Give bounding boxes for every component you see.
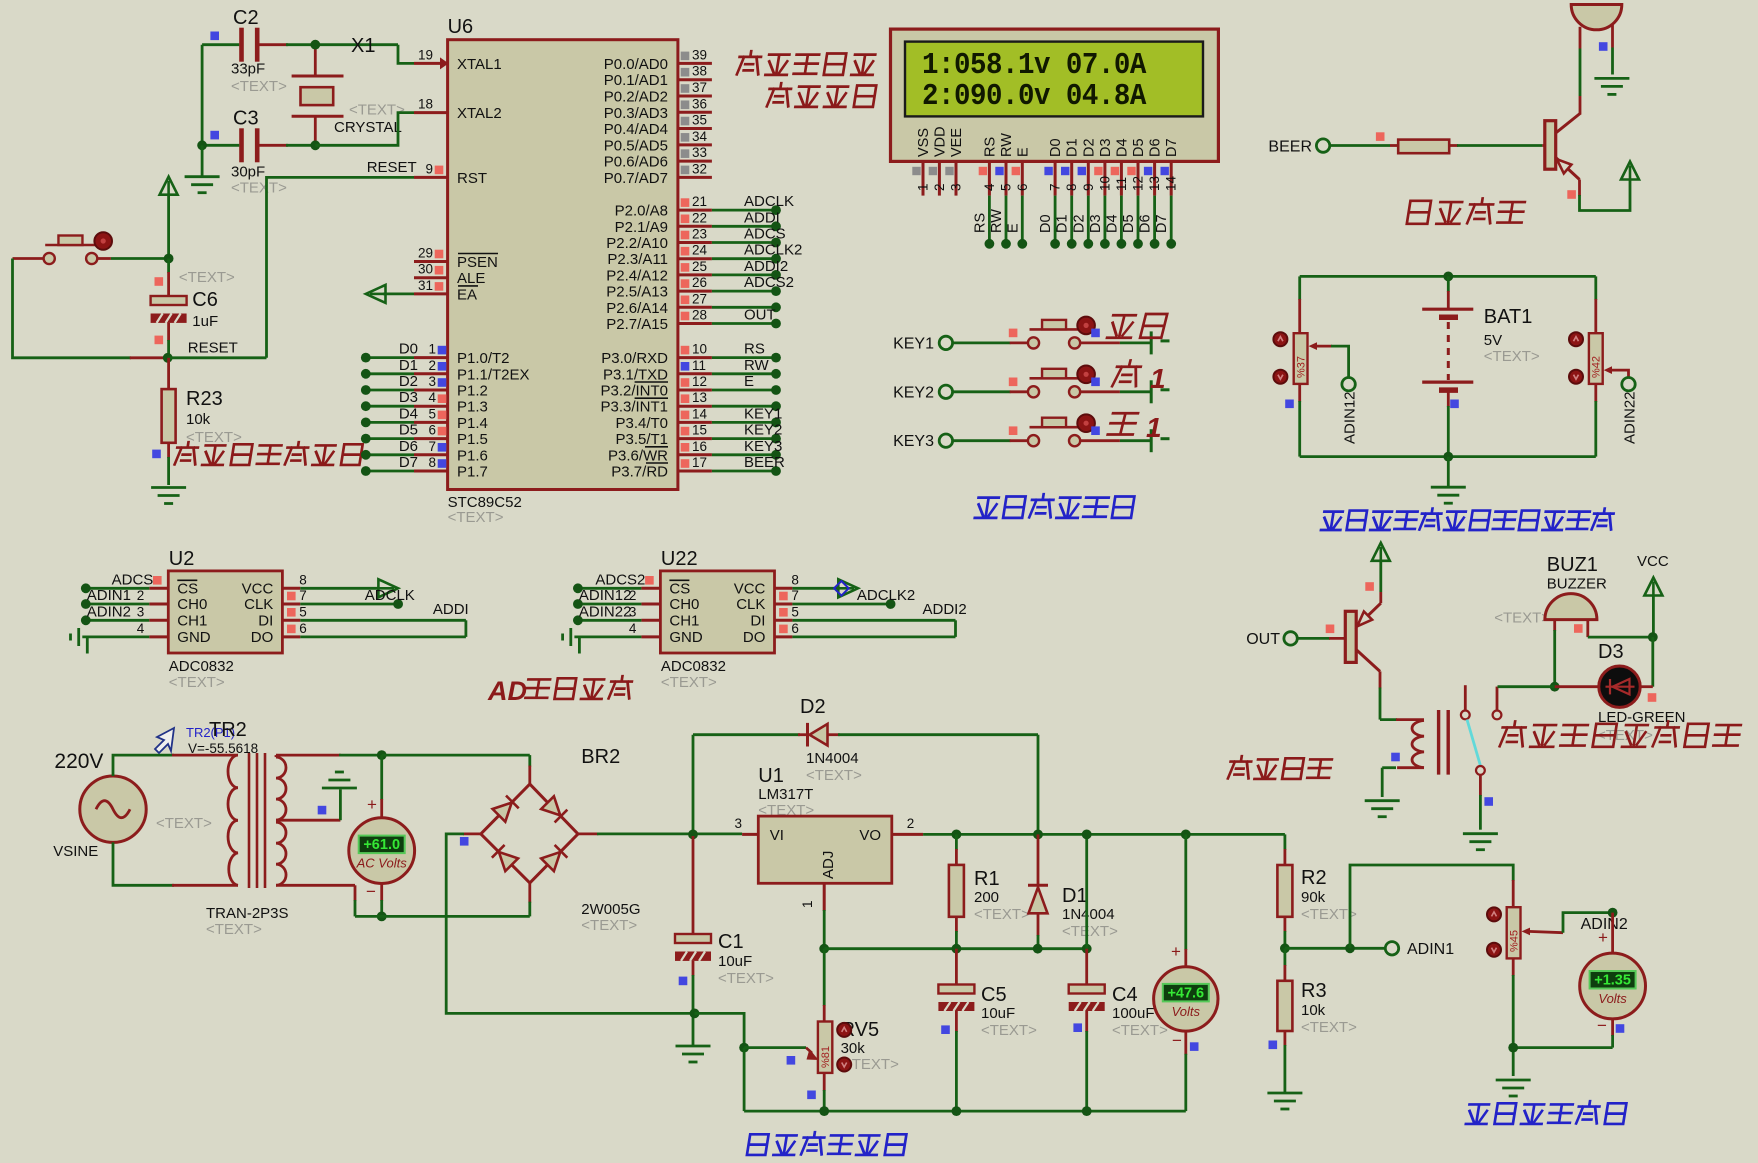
U22 pin6 DO loop: [775, 635, 793, 638]
svg-text:E: E: [744, 373, 754, 390]
svg-text:D1: D1: [1055, 214, 1071, 233]
button KEY3: [1028, 414, 1095, 446]
svg-text:28: 28: [692, 308, 707, 323]
label analog current output: [1466, 1101, 1627, 1124]
wire button right: [97, 257, 111, 260]
svg-text:14: 14: [1164, 175, 1179, 191]
capacitor C5: [955, 949, 958, 985]
pin 32 P0.7/AD7: [678, 176, 712, 179]
svg-text:1N4004: 1N4004: [1062, 906, 1115, 923]
svg-text:P3.1/TXD: P3.1/TXD: [603, 366, 668, 383]
pin 13 P3.3/INT1 net nc: [678, 405, 712, 408]
wire secondary top lead: [275, 755, 278, 757]
wire ADIN1: [1285, 947, 1385, 950]
svg-text:C5: C5: [981, 984, 1007, 1006]
svg-text:D6: D6: [1148, 138, 1164, 157]
svg-text:−: −: [1172, 1031, 1182, 1050]
wire bridge plus out: [578, 833, 598, 836]
svg-text:5: 5: [791, 604, 799, 619]
svg-text:ADDI: ADDI: [744, 209, 780, 226]
ground below R23: [151, 488, 186, 504]
svg-text:6: 6: [299, 621, 307, 636]
wire ADJ rail: [824, 947, 1086, 950]
svg-text:D6: D6: [399, 438, 418, 455]
vcc arrow beer emitter: [1621, 162, 1639, 180]
svg-text:BEER: BEER: [1268, 139, 1312, 156]
svg-text:D5: D5: [399, 422, 418, 439]
resistor R1: [952, 830, 962, 840]
node ADIN2: [1608, 908, 1618, 918]
diode D2: [693, 733, 800, 736]
pin 30 ALE: [414, 276, 448, 279]
svg-text:U2: U2: [169, 548, 195, 570]
wiper RV-54: [1522, 928, 1531, 936]
svg-text:ADIN12: ADIN12: [579, 587, 632, 604]
wire RV5 bottom: [823, 1073, 826, 1091]
svg-text:<TEXT>: <TEXT>: [581, 917, 637, 934]
svg-text:D7: D7: [1154, 214, 1170, 233]
svg-text:CS: CS: [177, 580, 198, 597]
svg-text:<TEXT>: <TEXT>: [179, 269, 235, 286]
svg-text:C1: C1: [718, 931, 744, 953]
svg-text:X1: X1: [351, 35, 375, 57]
wire meter minus to pot bottom: [1513, 1046, 1612, 1049]
svg-text:1: 1: [800, 900, 815, 908]
label full charge alarm: [1500, 721, 1741, 746]
svg-text:P1.6: P1.6: [457, 447, 488, 464]
svg-text:V=-55.5618: V=-55.5618: [188, 741, 258, 756]
transformer TR2 core: [248, 753, 251, 888]
label set charging params: [975, 494, 1135, 518]
svg-text:21: 21: [692, 194, 707, 209]
svg-text:D0: D0: [399, 341, 418, 358]
svg-text:P2.5/A13: P2.5/A13: [606, 284, 668, 301]
svg-text:8: 8: [791, 572, 799, 587]
svg-text:13: 13: [692, 390, 707, 405]
svg-text:RESET: RESET: [367, 159, 417, 176]
svg-text:P0.5/AD5: P0.5/AD5: [604, 137, 668, 154]
pin 7 P1.6 net D6: [414, 453, 448, 456]
wire bridge minus loop: [463, 833, 481, 836]
wire left rail C2-C3: [201, 45, 204, 146]
svg-text:CH0: CH0: [669, 596, 699, 613]
svg-text:P1.2: P1.2: [457, 383, 488, 400]
wire lcd D1: [1070, 196, 1073, 244]
svg-text:+: +: [1171, 942, 1181, 961]
label charger params: [737, 51, 876, 75]
node crystal bottom: [310, 140, 320, 150]
svg-text:38: 38: [692, 64, 707, 79]
svg-text:BUZZER: BUZZER: [1547, 576, 1607, 593]
svg-text:3: 3: [428, 374, 436, 389]
svg-text:CH1: CH1: [669, 612, 699, 629]
resistor R2: [1277, 865, 1292, 917]
node C3-ground: [197, 140, 207, 150]
button KEY1: [1028, 317, 1095, 349]
svg-text:25: 25: [692, 259, 707, 274]
label minimal system: [175, 442, 363, 465]
svg-text:9: 9: [1081, 183, 1096, 191]
wire bat left upper: [1298, 276, 1301, 300]
svg-text:100uF: 100uF: [1112, 1005, 1155, 1022]
pin 24 P2.3 net ADCLK2: [678, 257, 712, 260]
U22 pin1 CS net ADCS2: [641, 587, 660, 590]
cell ground key1: [1150, 331, 1153, 354]
relay switch: [1461, 711, 1470, 720]
wire button1 to cell: [1080, 341, 1120, 344]
svg-text:CLK: CLK: [736, 596, 765, 613]
wire XTAL2: [315, 113, 414, 146]
svg-text:E: E: [1005, 223, 1021, 233]
pin 3 P1.2 net D2: [414, 389, 448, 392]
terminal OUT: [1284, 632, 1297, 645]
ground relay coil: [1365, 801, 1400, 817]
U2 pin7 CLK net ADCLK: [282, 603, 300, 606]
pin 29 PSEN: [414, 260, 448, 263]
cursor arrow: [155, 728, 174, 753]
pin VO: [892, 833, 923, 836]
wire lcd E: [1021, 196, 1024, 244]
svg-text:DO: DO: [743, 629, 766, 646]
wire vsine bottom: [113, 842, 174, 885]
resistor base beer: [1390, 144, 1398, 147]
svg-text:VDD: VDD: [932, 126, 948, 157]
svg-text:VSS: VSS: [916, 128, 932, 157]
svg-text:36: 36: [692, 96, 707, 111]
svg-text:8: 8: [428, 455, 436, 470]
svg-text:D0: D0: [1048, 138, 1064, 157]
button KEY2: [1028, 366, 1095, 398]
svg-text:7: 7: [791, 588, 799, 603]
svg-text:AD: AD: [487, 676, 527, 706]
svg-text:P1.4: P1.4: [457, 415, 488, 432]
svg-text:VCC: VCC: [1637, 553, 1669, 570]
svg-text:5: 5: [999, 183, 1014, 191]
wire lcd D4: [1120, 196, 1123, 244]
pin 36 P0.3/AD3: [678, 111, 712, 114]
capacitor C6: [167, 259, 170, 274]
terminal ADIN1: [1385, 942, 1398, 955]
node ADIN1 tee: [1345, 943, 1355, 953]
svg-text:ALE: ALE: [457, 270, 485, 287]
svg-text:KEY2: KEY2: [893, 384, 934, 401]
pot RV-54: [1507, 907, 1521, 958]
bridge diode BL: [492, 845, 518, 871]
svg-text:2: 2: [629, 588, 637, 603]
node button-C6: [164, 254, 174, 264]
node C1 gnd junction: [690, 1009, 700, 1019]
wire bat left lower: [1298, 384, 1301, 402]
pin 18 XTAL2: [414, 111, 448, 114]
node pot bottom: [1508, 1043, 1518, 1053]
svg-text:BAT1: BAT1: [1484, 306, 1533, 328]
svg-text:R1: R1: [974, 868, 1000, 890]
svg-text:RS: RS: [972, 213, 988, 233]
bridge diode TL: [493, 796, 519, 822]
diode D1: [1033, 830, 1043, 840]
svg-text:BEER: BEER: [744, 454, 785, 471]
svg-text:Volts: Volts: [1172, 1004, 1201, 1019]
wire reset to RST pin: [168, 356, 267, 359]
svg-text:4: 4: [137, 621, 145, 636]
svg-text:7: 7: [299, 588, 307, 603]
pin 33 P0.6/AD6: [678, 160, 712, 163]
transformer TR2 secondary bottom: [276, 822, 286, 885]
node bat top: [1443, 272, 1453, 282]
svg-text:9: 9: [425, 161, 433, 176]
wire secondary bottom lead: [276, 884, 355, 887]
wire KEY1 to button: [953, 341, 1011, 344]
svg-text:P2.0/A8: P2.0/A8: [615, 203, 668, 220]
terminal KEY2: [939, 385, 952, 398]
wire KEY2 to button: [953, 390, 1011, 393]
battery BAT1: [1447, 276, 1450, 292]
svg-text:P2.3/A11: P2.3/A11: [607, 251, 668, 268]
wire KEY3 to button: [953, 439, 1011, 442]
capacitor C2: [239, 28, 244, 62]
label plus1: [1112, 361, 1142, 387]
wire D2 right vertical: [1037, 735, 1040, 835]
ground U2: [86, 637, 89, 654]
svg-text:RS: RS: [744, 341, 765, 358]
wiper RV-right: [1604, 366, 1612, 374]
wire bat right lower: [1594, 384, 1597, 402]
svg-text:DI: DI: [258, 612, 273, 629]
svg-text:30k: 30k: [841, 1040, 866, 1057]
meter +47.6 Volts: [1181, 830, 1191, 840]
svg-text:D3: D3: [399, 389, 418, 406]
svg-text:10uF: 10uF: [718, 953, 752, 970]
U2 pin4 GND: [149, 635, 168, 638]
svg-text:37: 37: [692, 80, 707, 95]
svg-text:Volts: Volts: [1598, 991, 1627, 1006]
svg-text:10uF: 10uF: [981, 1005, 1015, 1022]
label set: [1107, 314, 1167, 338]
lcd screen: [905, 42, 1203, 117]
svg-text:<TEXT>: <TEXT>: [231, 78, 287, 95]
pin 14 P3.4/T0 net KEY1: [678, 421, 712, 424]
svg-text:16: 16: [692, 439, 707, 454]
svg-text:C3: C3: [233, 108, 259, 130]
svg-text:CRYSTAL: CRYSTAL: [334, 119, 402, 136]
svg-text:10k: 10k: [186, 411, 211, 428]
svg-text:ADCLK: ADCLK: [365, 587, 415, 604]
svg-text:DO: DO: [251, 629, 274, 646]
wire C3 row: [202, 144, 239, 147]
ground R3: [1267, 1093, 1302, 1109]
svg-text:BR2: BR2: [581, 746, 620, 768]
svg-text:<TEXT>: <TEXT>: [1062, 923, 1118, 940]
pin 22 P2.1 net ADDI: [678, 225, 712, 228]
svg-text:VSINE: VSINE: [53, 843, 98, 860]
pin ADJ: [823, 883, 826, 911]
svg-text:P0.0/AD0: P0.0/AD0: [604, 56, 668, 73]
vcc arrow out emitter: [1372, 543, 1390, 561]
svg-text:CLK: CLK: [244, 596, 273, 613]
svg-text:GND: GND: [177, 629, 211, 646]
svg-text:6: 6: [428, 423, 436, 438]
svg-text:P3.2/INT0: P3.2/INT0: [600, 383, 668, 400]
svg-text:15: 15: [692, 423, 707, 438]
wire ac top to bridge: [382, 754, 530, 757]
wire RV-54 bottom: [1512, 958, 1515, 976]
wire lcd D2: [1087, 196, 1090, 244]
terminal BEER: [1316, 139, 1329, 152]
crystal X1: [314, 45, 317, 76]
svg-text:P1.1/T2EX: P1.1/T2EX: [457, 366, 530, 383]
svg-text:RW: RW: [999, 133, 1015, 157]
svg-text:CH0: CH0: [177, 596, 207, 613]
vcc arrow reset: [160, 177, 178, 195]
svg-text:D1: D1: [399, 357, 418, 374]
transistor Q-out body: [1345, 611, 1356, 662]
cell ground key2: [1150, 380, 1153, 403]
svg-text:P0.7/AD7: P0.7/AD7: [604, 170, 668, 187]
pin 5 P1.4 net D4: [414, 421, 448, 424]
svg-text:P3.3/INT1: P3.3/INT1: [600, 399, 668, 416]
svg-text:8: 8: [1064, 183, 1079, 191]
svg-text:22: 22: [692, 210, 707, 225]
svg-text:ADDI2: ADDI2: [744, 258, 788, 275]
svg-text:10: 10: [1097, 176, 1112, 191]
svg-text:KEY1: KEY1: [893, 335, 934, 352]
svg-text:5: 5: [299, 604, 307, 619]
svg-text:D5: D5: [1121, 214, 1137, 233]
svg-text:XTAL2: XTAL2: [457, 105, 502, 122]
svg-text:R3: R3: [1301, 980, 1327, 1002]
wire sounder right to ground: [1611, 25, 1614, 48]
svg-text:1: 1: [916, 183, 931, 191]
svg-text:26: 26: [692, 275, 707, 290]
svg-text:AC Volts: AC Volts: [356, 856, 408, 871]
switch blade: [1467, 720, 1480, 766]
svg-text:D5: D5: [1131, 138, 1147, 157]
svg-text:2: 2: [907, 816, 915, 831]
wire vsine top: [113, 755, 174, 776]
U22 pin4 GND: [641, 635, 660, 638]
svg-text:U1: U1: [758, 765, 784, 787]
svg-text:P0.1/AD1: P0.1/AD1: [604, 72, 668, 89]
svg-text:11: 11: [1114, 177, 1129, 191]
svg-text:P1.0/T2: P1.0/T2: [457, 350, 510, 367]
wire button left loop: [13, 257, 44, 260]
svg-text:D2: D2: [800, 696, 826, 718]
ground C1: [676, 1046, 711, 1062]
U2 pin8 VCC power arrow: [282, 587, 300, 590]
wire wiper line: [744, 1046, 806, 1049]
svg-text:<TEXT>: <TEXT>: [806, 767, 862, 784]
reset button: [44, 232, 112, 264]
emitter with pnp arrow: [1556, 158, 1580, 180]
svg-text:−: −: [1597, 1016, 1607, 1035]
pin 15 P3.5/T1 net KEY2: [678, 437, 712, 440]
wire vcc to led: [1651, 637, 1654, 687]
svg-text:KEY3: KEY3: [893, 433, 934, 450]
pin 2 P1.1 net D1: [414, 372, 448, 375]
pin 16 P3.6/WR net KEY3: [678, 453, 712, 456]
svg-text:BUZ1: BUZ1: [1547, 554, 1598, 576]
svg-text:P3.0/RXD: P3.0/RXD: [601, 350, 668, 367]
svg-text:VO: VO: [859, 827, 881, 844]
pin 10 P3.0/RXD net RS: [678, 356, 712, 359]
svg-text:30: 30: [418, 262, 433, 277]
pin 4 P1.3 net D3: [414, 405, 448, 408]
svg-text:33: 33: [692, 145, 707, 160]
svg-text:2W005G: 2W005G: [581, 901, 640, 918]
svg-text:11: 11: [692, 358, 706, 373]
svg-text:ADIN1: ADIN1: [87, 587, 131, 604]
svg-text:1: 1: [428, 342, 436, 357]
svg-text:<TEXT>: <TEXT>: [718, 970, 774, 987]
wire lcd D3: [1104, 196, 1107, 244]
svg-text:+61.0: +61.0: [363, 837, 400, 853]
node R2 R3: [1280, 943, 1290, 953]
wire ac bottom: [355, 915, 530, 918]
node RV5 bottom: [819, 1106, 829, 1116]
svg-text:<TEXT>: <TEXT>: [661, 674, 717, 691]
pin VI: [742, 833, 758, 836]
pin 12 P3.2/INT0 net E: [678, 389, 712, 392]
svg-text:KEY3: KEY3: [744, 438, 782, 455]
wire gnd line to wiper: [695, 1013, 745, 1047]
svg-text:%37: %37: [1296, 356, 1308, 378]
ground sounder: [1594, 78, 1629, 94]
svg-text:R2: R2: [1301, 867, 1327, 889]
svg-text:ADCS2: ADCS2: [744, 274, 794, 291]
svg-text:3: 3: [734, 816, 742, 831]
svg-text:31: 31: [418, 278, 433, 293]
pin 8 P1.7 net D7: [414, 470, 448, 473]
svg-text:<TEXT>: <TEXT>: [1484, 348, 1540, 365]
svg-text:30pF: 30pF: [231, 164, 265, 181]
capacitor C3: [239, 128, 244, 162]
svg-text:P2.4/A12: P2.4/A12: [606, 267, 668, 284]
svg-text:D1: D1: [1062, 885, 1088, 907]
wire lcd D7: [1170, 196, 1173, 244]
svg-text:35: 35: [692, 113, 707, 128]
wire bat top rail: [1300, 275, 1596, 278]
svg-text:12: 12: [1131, 176, 1146, 191]
svg-text:%42: %42: [1591, 356, 1603, 378]
source VSINE 220V: [80, 776, 146, 842]
svg-text:P1.3: P1.3: [457, 399, 488, 416]
terminal KEY3: [939, 434, 952, 447]
svg-text:D1: D1: [1065, 138, 1081, 157]
svg-text:14: 14: [692, 406, 708, 421]
svg-text:3: 3: [629, 604, 637, 619]
pin 21 P2.0 net ADCLK: [678, 209, 712, 212]
svg-text:ADDI: ADDI: [433, 601, 469, 618]
terminal ADIN12: [1342, 378, 1355, 391]
svg-text:2: 2: [428, 358, 436, 373]
svg-text:4: 4: [428, 390, 436, 405]
node led left: [1550, 682, 1560, 692]
wire lcd D6: [1153, 196, 1156, 244]
wire button2 to cell: [1080, 390, 1120, 393]
svg-text:<TEXT>: <TEXT>: [169, 674, 225, 691]
svg-text:+1.35: +1.35: [1594, 973, 1631, 989]
EA pin wire and power arrow: [414, 292, 448, 295]
U2 pin3 CH1 net ADIN2: [149, 619, 168, 622]
terminal KEY1: [939, 336, 952, 349]
U22 pin3 CH1 net ADIN22: [641, 619, 660, 622]
node wiper corner: [739, 1043, 749, 1053]
wire lcd RS: [988, 196, 991, 244]
svg-text:39: 39: [692, 47, 707, 62]
clock input mark XTAL1: [440, 57, 449, 69]
svg-text:<TEXT>: <TEXT>: [1112, 1022, 1168, 1039]
svg-text:ADIN1: ADIN1: [1407, 941, 1454, 958]
